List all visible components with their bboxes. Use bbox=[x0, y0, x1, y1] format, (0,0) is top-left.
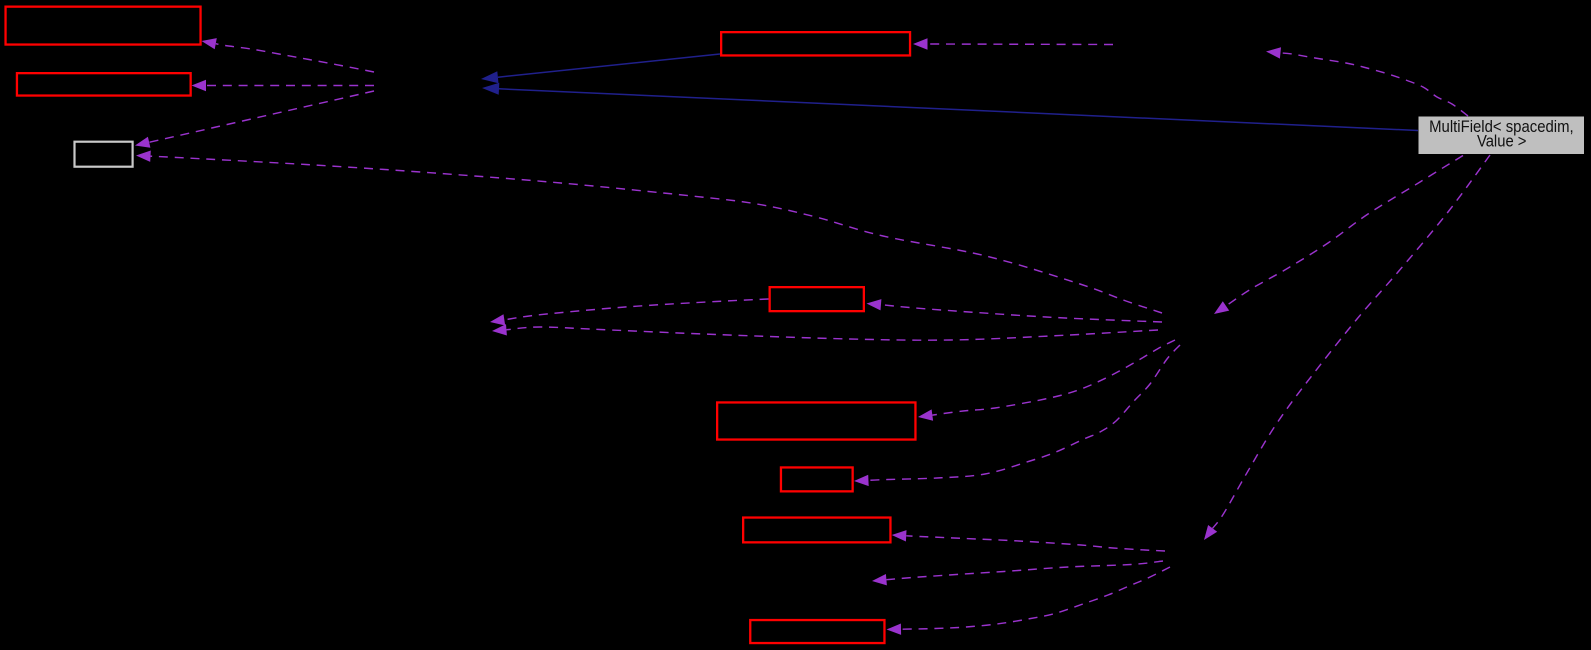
svg-text:Value >: Value > bbox=[1477, 133, 1527, 151]
